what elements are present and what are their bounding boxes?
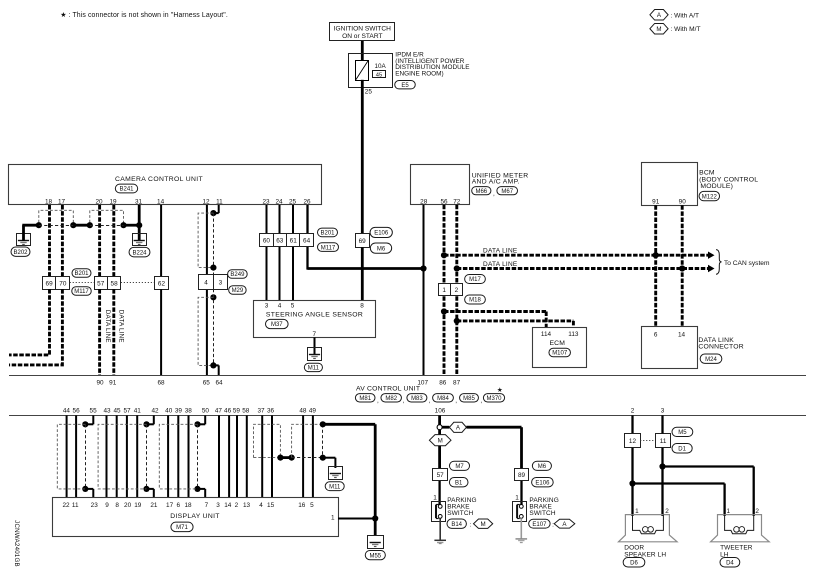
connector M29 oval (229, 286, 247, 294)
connector D6 oval (623, 558, 645, 568)
shield box around 43 45 57 41 (98, 424, 146, 489)
chassis ground right switch (gray) (516, 538, 528, 540)
ground M55 (368, 536, 384, 549)
data link connector box (642, 327, 698, 369)
svg-text:8: 8 (360, 302, 364, 309)
drain elbow to AV pin 64 (213, 364, 218, 366)
wire to steering angle sensor pin 8 (361, 247, 364, 300)
svg-text:M: M (656, 26, 661, 33)
svg-text:90: 90 (679, 198, 687, 205)
svg-text:CAMERA CONTROL UNIT: CAMERA CONTROL UNIT (115, 176, 203, 183)
connector M107 oval (549, 348, 571, 356)
svg-text:E5: E5 (401, 83, 409, 89)
svg-text:26: 26 (303, 199, 311, 206)
svg-text:SWITCH: SWITCH (529, 510, 555, 517)
svg-text:D6: D6 (630, 561, 638, 567)
svg-text:4: 4 (259, 502, 263, 509)
connector 4|3 box (199, 275, 228, 290)
connector B249 oval (228, 270, 248, 278)
connector 62 box (155, 277, 169, 290)
wire 55-23 shield drain (92, 415, 94, 424)
connector 57 box (lower) (433, 469, 448, 481)
ground B202 (17, 234, 31, 246)
junction dot tweeter branch upper (659, 463, 665, 469)
svg-text::: : (470, 521, 472, 528)
svg-text:10A: 10A (375, 63, 387, 70)
svg-text:91: 91 (652, 198, 660, 205)
svg-text:M: M (481, 521, 486, 528)
svg-text:,: , (429, 397, 431, 404)
junction dot above connector 4|3 (210, 265, 216, 271)
ground B224 (133, 234, 147, 246)
connector M37 oval (266, 319, 289, 328)
junction dot wire 28 / data line (420, 265, 426, 271)
svg-text:DISPLAY UNIT: DISPLAY UNIT (170, 513, 219, 520)
svg-text:37: 37 (257, 408, 265, 415)
svg-text:M55: M55 (369, 553, 381, 559)
svg-text:,: , (403, 397, 405, 404)
connector 11 box (656, 434, 671, 448)
ground M11 (lower) (329, 467, 343, 480)
connector M5 oval (672, 427, 693, 436)
svg-text:M: M (438, 438, 443, 445)
connector E106 oval (lower) (532, 478, 554, 487)
wire into fuse (361, 54, 364, 61)
data line upper bus (444, 254, 709, 257)
svg-text:M29: M29 (232, 288, 244, 294)
svg-text:65: 65 (203, 379, 211, 386)
unified meter and a/c amp box (411, 165, 470, 205)
connector 1|2 box (439, 284, 463, 296)
svg-text:DATA LINE: DATA LINE (483, 261, 518, 268)
shield box around 40 39 38 (159, 424, 197, 489)
connector M17 oval (465, 275, 486, 284)
svg-text:8: 8 (115, 502, 119, 509)
connector D4 oval (720, 558, 740, 568)
svg-text:41: 41 (134, 408, 142, 415)
dotted link 58 to 62 (121, 282, 154, 284)
svg-text:57: 57 (437, 472, 445, 479)
svg-text:56: 56 (73, 408, 81, 415)
svg-text:16: 16 (298, 502, 306, 509)
drain dashed crossing wires 18 17 (39, 225, 74, 227)
svg-text:25: 25 (289, 199, 297, 206)
svg-text:STEERING ANGLE SENSOR: STEERING ANGLE SENSOR (266, 311, 363, 318)
wire ignition switch to IPDM (361, 41, 364, 55)
svg-text:B201: B201 (320, 231, 335, 237)
connector B1 oval (449, 478, 468, 487)
svg-text:72: 72 (453, 198, 461, 205)
shield drain dashed upper (213, 213, 215, 275)
svg-text:18: 18 (45, 199, 53, 206)
svg-text:28: 28 (420, 198, 428, 205)
svg-text:44: 44 (63, 408, 71, 415)
connector M6 oval (lower) (532, 461, 551, 470)
svg-text:114: 114 (541, 331, 552, 338)
shield drain junction dots row (36, 222, 42, 228)
ground wire to M55 junction (323, 423, 375, 426)
shield box around wires 20 19 (90, 210, 124, 222)
wire 31 to ground (138, 205, 141, 241)
svg-text:39: 39 (175, 408, 183, 415)
svg-text:M24: M24 (705, 357, 717, 363)
svg-text:12: 12 (202, 199, 210, 206)
svg-text:3: 3 (216, 502, 220, 509)
svg-text:SWITCH: SWITCH (447, 510, 473, 517)
svg-text:42: 42 (151, 408, 159, 415)
shield box around 44 56 (57, 424, 85, 489)
svg-text:2: 2 (665, 508, 669, 515)
connector 57|58 box (95, 277, 121, 290)
svg-text:3: 3 (265, 302, 269, 309)
brace to CAN system (716, 250, 722, 275)
branch to tweeter pin 2 (663, 465, 754, 467)
svg-text:4: 4 (278, 302, 282, 309)
junction dot wire 72 to ECM (454, 318, 460, 324)
svg-text:90: 90 (96, 379, 104, 386)
svg-text:: With M/T: : With M/T (671, 26, 701, 33)
connector M117 oval (mid) (318, 243, 339, 252)
wire pin 7 to ground (314, 337, 316, 354)
svg-text:12: 12 (629, 438, 637, 445)
shield box around 48 49 (292, 424, 323, 457)
svg-text:To CAN system: To CAN system (724, 260, 770, 267)
svg-text:23: 23 (262, 199, 270, 206)
svg-text:2: 2 (755, 508, 759, 515)
svg-text:D4: D4 (726, 561, 734, 567)
junction dot below connector 4|3 (210, 294, 216, 300)
parking brake switch left symbol (432, 502, 446, 522)
svg-text:1: 1 (727, 508, 731, 515)
svg-text:,: , (455, 397, 457, 404)
svg-text:31: 31 (135, 199, 143, 206)
svg-text:61: 61 (290, 238, 298, 245)
drain link dots (280, 456, 291, 459)
shield box lower around wire 12 (198, 297, 213, 365)
svg-text:113: 113 (568, 331, 579, 338)
svg-text:,: , (480, 397, 482, 404)
svg-text:91: 91 (109, 379, 117, 386)
svg-text:6: 6 (654, 332, 658, 339)
chassis ground left switch (434, 539, 446, 541)
connector M55 oval (365, 550, 385, 559)
svg-text:M11: M11 (308, 366, 320, 372)
BCM box (642, 163, 698, 206)
svg-text:1: 1 (442, 287, 446, 294)
wire to parking brake switch right (520, 481, 522, 505)
ECM branch lower (457, 319, 574, 322)
camera control unit box (9, 165, 322, 205)
svg-text:11: 11 (216, 199, 223, 206)
wire 24 (279, 205, 281, 301)
svg-text:3: 3 (219, 279, 223, 286)
svg-text:36: 36 (267, 408, 275, 415)
arrow upper to CAN (708, 252, 715, 259)
junction dot drain bottom (210, 362, 216, 368)
connector M71 oval (171, 522, 193, 532)
ignition switch box (330, 23, 395, 41)
svg-text:IGNITION SWITCH: IGNITION SWITCH (334, 26, 391, 33)
svg-text:25: 25 (365, 89, 373, 96)
svg-text:7: 7 (313, 331, 317, 338)
connector D1 oval (672, 444, 692, 454)
svg-text:5: 5 (310, 502, 314, 509)
shield box around wires 18 17 (39, 210, 74, 222)
svg-text:58: 58 (242, 408, 250, 415)
svg-text:18: 18 (184, 502, 192, 509)
legend with A/T symbol (650, 10, 668, 20)
svg-text:B224: B224 (132, 250, 147, 256)
wire 28 to AV pin 107 (423, 205, 425, 375)
junction dot shield 37/36 (277, 455, 283, 461)
svg-text:20: 20 (95, 199, 103, 206)
svg-text:1: 1 (433, 494, 437, 501)
wire 25 (292, 205, 294, 301)
svg-text:9: 9 (105, 502, 109, 509)
svg-text:17: 17 (58, 199, 66, 206)
wire 20 shielded (98, 205, 101, 277)
arrow lower to CAN (708, 265, 715, 272)
svg-text:M81: M81 (359, 396, 371, 402)
svg-text:M117: M117 (74, 289, 89, 295)
svg-text:MODULE): MODULE) (700, 183, 733, 190)
connector B201 oval (mid) (318, 228, 338, 237)
svg-text:E106: E106 (535, 480, 550, 486)
svg-text:AND A/C AMP.: AND A/C AMP. (472, 179, 520, 186)
connector B14 oval (447, 519, 466, 528)
svg-text:89: 89 (518, 472, 526, 479)
svg-text:69: 69 (46, 280, 54, 287)
connector E106 oval (top) (370, 227, 392, 237)
connector M18 oval (465, 295, 486, 304)
svg-text:59: 59 (233, 408, 241, 415)
svg-text:B201: B201 (74, 271, 89, 277)
svg-text:63: 63 (276, 238, 284, 245)
AV control unit bottom line (9, 415, 806, 417)
parking brake switch right symbol (513, 502, 527, 522)
svg-text:50: 50 (202, 408, 210, 415)
svg-text:21: 21 (150, 502, 158, 509)
connector 69 box (356, 234, 370, 248)
door speaker LH symbol (619, 515, 678, 542)
branch to tweeter pin 1 (633, 482, 725, 484)
svg-text:19: 19 (134, 502, 142, 509)
connector M24 oval (700, 354, 722, 363)
svg-text:23: 23 (91, 502, 99, 509)
svg-text:CONNECTOR: CONNECTOR (698, 343, 743, 350)
connector 69|70 box (43, 277, 70, 290)
wire 57 shielded to AV pin 90 (98, 289, 101, 375)
drain solid link (73, 224, 90, 227)
junction dot at M55 (372, 515, 378, 521)
svg-text:★: ★ (497, 386, 503, 394)
svg-text:45: 45 (376, 72, 382, 78)
wire 17 shielded (61, 205, 64, 277)
wire 42-21 shield drain (153, 415, 155, 424)
svg-text:49: 49 (309, 408, 317, 415)
display unit box (53, 498, 339, 537)
svg-text:AV CONTROL UNIT: AV CONTROL UNIT (356, 385, 420, 392)
connector M6 oval (top) (370, 243, 391, 253)
svg-text:46: 46 (224, 408, 232, 415)
svg-text:22: 22 (62, 502, 70, 509)
svg-text:M122: M122 (702, 194, 718, 200)
svg-text:DATA LINE: DATA LINE (104, 310, 111, 343)
junction dot shield 48/49 bottom (320, 455, 326, 461)
svg-text:13: 13 (243, 502, 251, 509)
svg-text:43: 43 (103, 408, 111, 415)
junction dot wire 56 to ECM (441, 308, 447, 314)
wire BCM 91 shielded (654, 205, 657, 326)
svg-text:70: 70 (59, 280, 67, 287)
svg-text:69: 69 (359, 238, 367, 245)
wire 23 (266, 205, 268, 301)
svg-text:1: 1 (515, 494, 519, 501)
svg-text:D1: D1 (678, 447, 686, 453)
junction dot wire 72 lower bus (454, 265, 460, 271)
svg-text:E107: E107 (532, 522, 547, 528)
wire AV pin 3 down (661, 415, 663, 433)
svg-text:M370: M370 (486, 396, 502, 402)
svg-text:7: 7 (205, 502, 209, 509)
ground M11 (steering) (308, 348, 322, 361)
wire 62 to AV pin 68 (160, 289, 162, 375)
svg-text:57: 57 (123, 408, 131, 415)
shield drain dashed lower (213, 289, 215, 365)
svg-text:24: 24 (275, 199, 283, 206)
drain dashed crossing wires 20 19 (90, 225, 124, 227)
svg-text:48: 48 (299, 408, 307, 415)
svg-text:M107: M107 (552, 351, 568, 357)
wire 69 shielded down and left off page (9, 289, 50, 355)
AV control unit top line (9, 375, 806, 377)
svg-text:ECM: ECM (549, 340, 565, 347)
svg-text:M83: M83 (411, 396, 423, 402)
connector 60|63|61|64 box (260, 234, 314, 247)
wire 11 stub and elbow (218, 205, 220, 213)
svg-text:87: 87 (453, 379, 461, 386)
svg-text:B249: B249 (230, 272, 245, 278)
svg-text:,: , (377, 397, 379, 404)
hexagon M (branch) (438, 430, 441, 435)
wires AV to display unit (straight) (66, 415, 68, 497)
svg-text:ON or START: ON or START (342, 33, 382, 40)
connector 89 box (515, 469, 529, 481)
branch circle (437, 425, 442, 430)
svg-text:2: 2 (235, 502, 239, 509)
fuse 10A 45 (356, 61, 369, 81)
svg-text:68: 68 (157, 379, 165, 386)
wire 3 to door speaker pin 2 (661, 448, 663, 516)
svg-text:4: 4 (204, 279, 208, 286)
svg-text:5: 5 (291, 302, 295, 309)
svg-text:M66: M66 (475, 189, 487, 195)
gray wire right switch to ground (520, 518, 522, 539)
svg-text:M18: M18 (469, 298, 481, 304)
IPDM E/R box (349, 54, 393, 88)
connector M11 oval (steering) (304, 363, 322, 371)
svg-text:86: 86 (439, 379, 447, 386)
junction dot wire 56 upper bus (441, 252, 447, 258)
wire BCM 90 shielded (681, 205, 684, 326)
svg-text:M7: M7 (455, 464, 464, 470)
svg-text:38: 38 (185, 408, 193, 415)
svg-text:62: 62 (158, 280, 166, 287)
wire 18 shielded (48, 205, 51, 277)
connector B202 oval (11, 247, 30, 256)
svg-text:M85: M85 (463, 396, 475, 402)
svg-text:M5: M5 (678, 430, 687, 436)
svg-text:M37: M37 (271, 322, 283, 328)
svg-text:64: 64 (303, 238, 311, 245)
connector M66 oval (472, 187, 491, 195)
wire 50-7 shield drain (204, 415, 206, 424)
wire 106 down (438, 415, 441, 425)
wire pin25 down to connector 69 (361, 87, 364, 233)
svg-text:57: 57 (97, 280, 105, 287)
svg-text:56: 56 (440, 198, 448, 205)
svg-text:64: 64 (215, 379, 223, 386)
svg-text:40: 40 (165, 408, 173, 415)
svg-text:M67: M67 (501, 189, 513, 195)
svg-text:M17: M17 (469, 277, 481, 283)
ECM branch upper (444, 310, 546, 313)
svg-text:M11: M11 (329, 484, 341, 490)
svg-text:11: 11 (72, 502, 79, 509)
wire 58 shielded to AV pin 91 (112, 289, 115, 375)
connector B241 oval (115, 184, 137, 193)
svg-text::: : (552, 521, 554, 528)
wire AV pin 2 down (631, 415, 633, 433)
dotted link 70 to 57 (70, 282, 94, 284)
wire left switch to ground (439, 518, 441, 540)
svg-text:E106: E106 (374, 231, 389, 237)
junction dot BCM 91 upper bus (653, 252, 659, 258)
connector E5 oval (395, 81, 416, 89)
connector M7 oval (449, 461, 469, 470)
wire M branch to connector 57 (438, 446, 441, 469)
svg-text:47: 47 (215, 408, 223, 415)
junction dot tweeter branch lower (629, 480, 635, 486)
svg-text:55: 55 (90, 408, 98, 415)
svg-text:14: 14 (157, 199, 165, 206)
svg-text:M6: M6 (377, 246, 386, 252)
connector E107 oval (529, 519, 550, 528)
svg-text:19: 19 (109, 199, 117, 206)
connector 12 box (625, 434, 641, 448)
connector B201 oval (left) (72, 269, 91, 277)
svg-text:14: 14 (678, 332, 686, 339)
connector B224 oval (129, 247, 150, 257)
svg-text:M6: M6 (538, 464, 547, 470)
svg-text:B14: B14 (451, 522, 462, 528)
data line lower bus (457, 267, 709, 270)
connector M122 oval (699, 191, 720, 200)
svg-text:11: 11 (660, 438, 667, 445)
wire 14 to connector 62 (160, 205, 162, 277)
svg-text:DATA LINE: DATA LINE (117, 310, 124, 343)
hexagon A (branch) (442, 426, 449, 429)
svg-text:JCNWA2401GB: JCNWA2401GB (13, 520, 20, 567)
ground elbow to M11 (323, 457, 336, 459)
wire 70 shielded down and left off page (9, 289, 62, 365)
wire 12 to AV pin 65 (206, 205, 208, 375)
svg-text:: With A/T: : With A/T (671, 12, 700, 19)
wire 26 to data line (306, 205, 308, 270)
svg-text:17: 17 (166, 502, 174, 509)
ECM box (533, 328, 587, 368)
connector M11 oval (lower) (325, 482, 344, 491)
